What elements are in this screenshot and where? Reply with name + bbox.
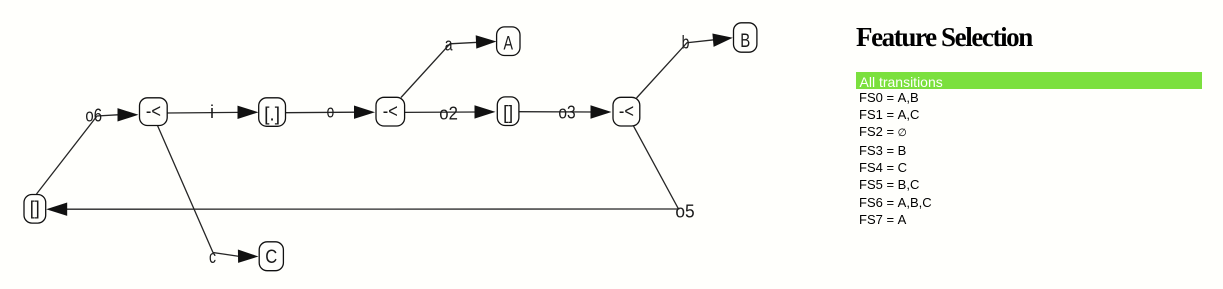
wire N7 to B label b bbox=[637, 40, 715, 98]
arrowhead into N4 bbox=[354, 106, 375, 119]
wire N7 to N1 label o5 bbox=[65, 126, 679, 209]
Feature Selection heading bbox=[856, 22, 1032, 53]
wire N3 to N4 label o bbox=[286, 111, 357, 114]
FS list bbox=[859, 89, 932, 228]
arrowhead into N2 bbox=[118, 108, 139, 121]
node N1 [] bbox=[24, 195, 46, 224]
svg-text:[]: [] bbox=[503, 103, 513, 124]
arrowhead into B bbox=[712, 34, 732, 47]
svg-text:A: A bbox=[504, 33, 514, 54]
svg-text:[]: [] bbox=[30, 199, 40, 220]
svg-text:-<: -< bbox=[619, 102, 634, 123]
svg-text:B: B bbox=[740, 31, 750, 52]
node A bbox=[497, 27, 520, 56]
wire N2 to N3 label i bbox=[167, 111, 240, 114]
svg-text:C: C bbox=[265, 247, 277, 268]
svg-text:i: i bbox=[210, 102, 214, 122]
svg-text:[.]: [.] bbox=[264, 105, 280, 126]
arrowhead into N7 bbox=[591, 105, 612, 118]
svg-text:b: b bbox=[682, 33, 690, 53]
wire N2 to C label c bbox=[158, 126, 241, 257]
wire N4 to N6 label o2 bbox=[405, 111, 477, 113]
arrowhead into N1 (points left) bbox=[46, 203, 67, 216]
node N6 [] bbox=[497, 97, 519, 126]
svg-text:c: c bbox=[209, 247, 216, 267]
svg-text:o3: o3 bbox=[558, 103, 575, 123]
arrowhead into N3 bbox=[238, 106, 259, 119]
node N4 -< bbox=[376, 97, 405, 126]
arrowhead into C bbox=[238, 250, 259, 263]
node C bbox=[259, 242, 283, 271]
svg-text:o5: o5 bbox=[675, 202, 694, 222]
svg-text:a: a bbox=[445, 34, 454, 54]
node N2 -< bbox=[140, 98, 168, 126]
svg-text:o: o bbox=[327, 101, 335, 121]
svg-text:o2: o2 bbox=[439, 103, 458, 123]
wire N4 to A label a bbox=[401, 42, 478, 97]
node N3 [.] bbox=[259, 98, 286, 127]
node N7 -< bbox=[613, 97, 640, 126]
svg-text:-<: -< bbox=[383, 102, 398, 123]
wire N6 to N7 label o3 bbox=[519, 111, 593, 113]
arrowhead into A bbox=[476, 35, 497, 48]
svg-text:o6: o6 bbox=[85, 106, 102, 126]
wire N1 to N2 label o6 bbox=[37, 115, 118, 194]
diagram: automaton graph bbox=[0, 0, 850, 289]
svg-text:-<: -< bbox=[146, 102, 161, 123]
node B bbox=[734, 23, 757, 52]
All transitions green bar bbox=[856, 72, 1202, 89]
arrowhead into N6 bbox=[475, 105, 496, 118]
